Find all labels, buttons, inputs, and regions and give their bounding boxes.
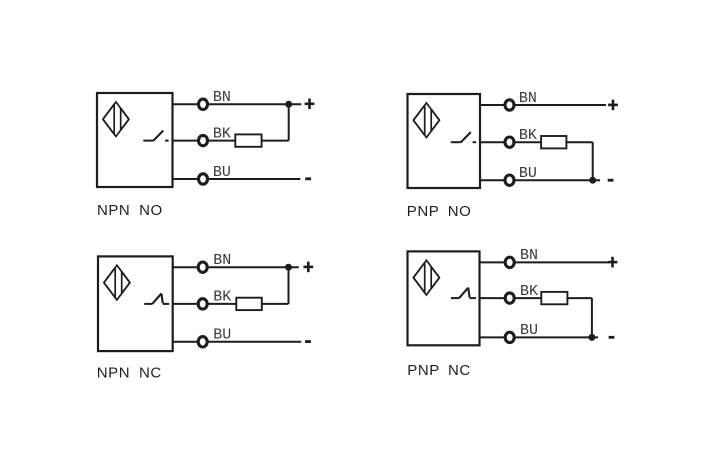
svg-text:BK: BK: [520, 283, 538, 300]
svg-text:BN: BN: [213, 252, 231, 269]
svg-text:NPN: NPN: [97, 365, 130, 382]
svg-text:NC: NC: [448, 362, 471, 379]
svg-text:BN: BN: [519, 90, 537, 107]
svg-text:BK: BK: [213, 125, 231, 142]
svg-text:BN: BN: [213, 89, 231, 106]
svg-text:PNP: PNP: [407, 203, 440, 220]
svg-text:BU: BU: [520, 322, 538, 339]
svg-text:BU: BU: [213, 327, 231, 344]
svg-text:BK: BK: [519, 127, 537, 144]
svg-text:BU: BU: [213, 164, 231, 181]
svg-text:PNP: PNP: [407, 362, 440, 379]
svg-text:NC: NC: [139, 365, 162, 382]
svg-text:BK: BK: [213, 289, 231, 306]
svg-text:NO: NO: [448, 203, 472, 220]
svg-text:BU: BU: [519, 165, 537, 182]
svg-text:BN: BN: [520, 247, 538, 264]
svg-text:NPN: NPN: [97, 202, 130, 219]
svg-text:NO: NO: [139, 202, 163, 219]
